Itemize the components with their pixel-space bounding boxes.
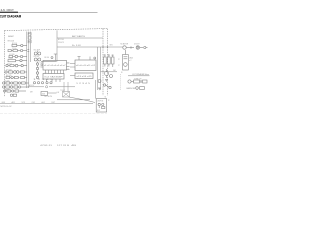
svg-text:1 2 3 4 5: 1 2 3 4 5 [76, 83, 91, 85]
dashed border segment right [120, 74, 122, 90]
resistor R8 [20, 71, 27, 73]
resistor R15 [6, 86, 11, 88]
resistor R11 [21, 76, 27, 78]
transistor Q5 [98, 80, 101, 83]
diode D2 [103, 84, 108, 87]
capacitor C29 [50, 82, 52, 84]
svg-text:C30 104: C30 104 [44, 57, 49, 59]
svg-text:DET: DET [52, 102, 56, 104]
svg-text:R10 470: R10 470 [6, 75, 11, 77]
svg-text:VC3: VC3 [22, 102, 26, 104]
J1 top stub A [78, 57, 81, 61]
external section rule [128, 75, 150, 77]
resistor R14 [22, 82, 29, 84]
capacitor C2 [20, 49, 29, 51]
svg-text:o8 o9 o10 o11 o12: o8 o9 o10 o11 o12 [76, 65, 95, 67]
svg-text:IN: IN [121, 72, 122, 74]
svg-text:S2: S2 [105, 97, 107, 99]
svg-text:o1 o2 o3 o4 o5 o6 o7: o1 o2 o3 o4 o5 o6 o7 [44, 65, 66, 67]
vertical wire node V1 [56, 30, 58, 61]
svg-text:TP: TP [108, 100, 110, 102]
J1 top stub B [89, 57, 91, 61]
svg-text:T2 OUT: T2 OUT [60, 90, 65, 92]
capacitor C13 [19, 86, 29, 88]
diode D1 cluster [10, 94, 17, 96]
rail labels [58, 35, 85, 47]
capacitor C5 [6, 64, 10, 66]
wire J2 feed [70, 75, 75, 77]
svg-text:455K: 455K [42, 94, 45, 96]
capacitor C6 [21, 64, 27, 66]
svg-text:R21 100: R21 100 [58, 39, 64, 41]
IC1 pin row right [67, 63, 70, 70]
capacitor C17 [36, 70, 38, 75]
faint lower frame line [0, 113, 107, 115]
IC1 pin row bottom [46, 70, 64, 74]
tick mark a [28, 32, 30, 34]
transistor Q7 [110, 75, 113, 78]
LED D4 [98, 103, 100, 108]
svg-text:C25: C25 [103, 55, 106, 57]
svg-text:C24 473: C24 473 [58, 42, 64, 44]
resistor R23 [112, 55, 114, 68]
resistor R16 [14, 86, 19, 88]
tuning capacitor VC1 pair [34, 51, 41, 55]
capacitor C23 [94, 57, 96, 59]
capacitor C11 [18, 82, 21, 84]
svg-text:8 OHM 0.2W: 8 OHM 0.2W [134, 78, 142, 80]
capacitor C27 tail [144, 46, 148, 48]
capacitor C4 [20, 59, 27, 61]
resistor R25 [143, 80, 148, 83]
svg-text:M1 MOTOR: M1 MOTOR [121, 44, 128, 46]
svg-text:x 2: x 2 [129, 60, 131, 62]
svg-text:VC2 82P: VC2 82P [34, 56, 40, 58]
svg-text:1 2 3 4 5: 1 2 3 4 5 [33, 79, 54, 81]
svg-text:UM-3: UM-3 [129, 57, 133, 59]
svg-text:SW2: SW2 [113, 70, 116, 72]
header thin rule [18, 11, 98, 14]
footer marks [40, 145, 77, 147]
transistor Q1 [15, 55, 20, 58]
svg-text:TP2 0.8V: TP2 0.8V [44, 96, 52, 98]
wire mid shelf [57, 99, 90, 101]
resistor R26 [102, 107, 105, 109]
resistor R12 [6, 82, 11, 84]
battery BT1 [123, 50, 129, 70]
frame top dashed border [5, 29, 108, 31]
motor M1 [123, 46, 134, 49]
board connector J2 [75, 73, 93, 79]
capacitor C12 [3, 86, 6, 88]
capacitor C9 [3, 82, 7, 84]
svg-text:0.3V: 0.3V [57, 92, 60, 94]
resistor R3 [13, 49, 20, 51]
resistor R7 [9, 71, 14, 73]
svg-text:CIRCUIT: CIRCUIT [7, 8, 14, 12]
resistor R1 [12, 44, 21, 46]
capacitor C3 [20, 55, 26, 57]
resistor R24 [134, 80, 140, 83]
svg-text:Q3 C458: Q3 C458 [6, 70, 12, 72]
capacitor C14 [4, 90, 8, 92]
bottom bus wire [0, 103, 93, 105]
svg-text:LED PCB: LED PCB [97, 101, 103, 103]
svg-text:SW1: SW1 [110, 45, 113, 47]
vertical wire W2 [100, 47, 102, 90]
left row labels [4, 43, 17, 92]
LED D5 [102, 103, 104, 105]
svg-text:Q1 C945: Q1 C945 [9, 54, 15, 56]
svg-text:o13 o14 o15: o13 o14 o15 [77, 76, 92, 78]
wire J2 drop [94, 80, 96, 99]
svg-text:DET: DET [30, 92, 33, 94]
vertical wire W1 [97, 47, 99, 90]
transistor Q6 [105, 69, 109, 78]
capacitor C31 [140, 81, 142, 83]
capacitor C22 [51, 57, 53, 59]
svg-text:B+ 3.0V: B+ 3.0V [72, 45, 81, 47]
capacitor C7 [5, 71, 9, 73]
transformer T2 box [63, 82, 70, 97]
wire rail C [57, 37, 103, 39]
sub board box [96, 99, 106, 112]
svg-text:C6 0.01: C6 0.01 [7, 63, 12, 65]
capacitor C19 [33, 82, 35, 84]
capacitor C20 [37, 82, 39, 84]
resistor R9 [6, 76, 11, 78]
svg-text:R1 2.2K: R1 2.2K [12, 43, 17, 45]
IC1 pin row left [41, 63, 44, 67]
svg-text:VC1 265P: VC1 265P [34, 50, 40, 52]
IC2 bottom stubs [47, 79, 61, 82]
svg-text:C26: C26 [108, 55, 111, 57]
wire audio rail [28, 86, 75, 88]
svg-text:VR1 10K: VR1 10K [8, 41, 15, 43]
tick mark b [28, 41, 30, 43]
IC1 top stub [54, 54, 57, 61]
junction dot B [107, 46, 108, 47]
earphone jack JK2 [136, 87, 145, 90]
wire J1 feed B [70, 66, 75, 68]
svg-text:T1 OSC: T1 OSC [8, 58, 13, 60]
connector CN1 [28, 33, 31, 36]
capacitor C15 [12, 90, 15, 92]
svg-text:4702-11: 4702-11 [40, 145, 53, 147]
svg-text:4-6.: 4-6. [1, 8, 6, 12]
wire J1 feed A [70, 63, 75, 65]
electrolytic C25 [104, 54, 107, 67]
wire sweep curve [70, 97, 96, 102]
resistor R18 [15, 90, 26, 92]
transistor Q4 [10, 86, 14, 88]
connector CN2 [28, 36, 31, 39]
tuning capacitor VC2 pair [34, 58, 56, 62]
resistor R4 [9, 55, 15, 57]
svg-text:C2 10u: C2 10u [12, 48, 17, 50]
svg-text:CUIT DIAGRAM: CUIT DIAGRAM [0, 13, 21, 18]
electrolytic C26 [108, 54, 111, 67]
coil L1 [36, 62, 38, 66]
capacitor C21 [41, 82, 43, 84]
svg-text:NOTE: B+ 3V: NOTE: B+ 3V [1, 106, 13, 108]
filter block FL1 [41, 92, 48, 96]
ground G1 [98, 88, 101, 90]
capacitor C8 [11, 76, 14, 78]
resistor R2 [8, 49, 13, 51]
frame right dashed border A [102, 29, 104, 96]
svg-text:R18 1K: R18 1K [5, 90, 10, 92]
capacitor C1 [21, 44, 27, 46]
jack JK1 [136, 46, 143, 49]
op-amp IC1 [43, 61, 67, 71]
speaker SP1 [128, 80, 134, 83]
junction dot A [102, 46, 103, 47]
capacitor C10 [11, 82, 14, 84]
capacitor C18 [36, 74, 38, 79]
svg-text:JK1 EXT: JK1 EXT [134, 44, 140, 46]
svg-text:B 3V: B 3V [97, 110, 100, 112]
transistor Q3 [14, 71, 21, 74]
resistor R5 [8, 60, 20, 62]
left bus vertical wires [27, 32, 31, 89]
svg-text:R23: R23 [112, 55, 115, 57]
capacitor C28 [46, 82, 48, 84]
svg-text:127 31 B: 127 31 B [57, 145, 70, 147]
transistor Q2 [15, 64, 21, 67]
svg-text:8 7 6: 8 7 6 [45, 72, 48, 74]
svg-text:C11 4.7u: C11 4.7u [4, 81, 10, 83]
resistor R13 [14, 82, 19, 84]
ground G2 [105, 80, 108, 82]
resistor R6 [10, 65, 15, 67]
wire switch lead [101, 71, 118, 73]
board connector J1 [75, 60, 96, 71]
op-amp IC2 [43, 74, 64, 80]
wire rail D with junctions [57, 46, 123, 48]
resistor R17 [7, 90, 12, 92]
wire FL1 out [48, 92, 57, 94]
bus labels along bottom wire [2, 101, 56, 104]
connector CN3 [28, 40, 31, 43]
diode D3 [109, 86, 111, 88]
frame left dashed border [4, 30, 6, 97]
capacitor C16 [36, 65, 38, 70]
frame right dashed border B [107, 29, 109, 96]
header thick rule [0, 12, 18, 13]
resistor R10 [14, 76, 19, 78]
